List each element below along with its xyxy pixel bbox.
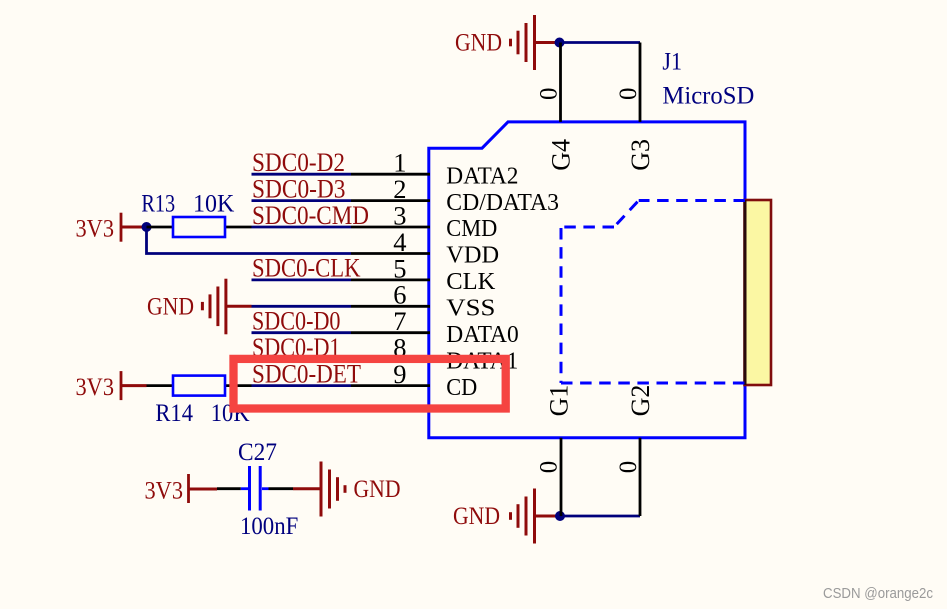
svg-text:GND: GND: [147, 293, 194, 320]
resistor R13: [141, 191, 251, 238]
svg-text:DATA0: DATA0: [446, 321, 518, 348]
ground symbol bottom: [511, 489, 561, 544]
svg-text:0: 0: [615, 88, 642, 101]
svg-text:CD: CD: [446, 374, 477, 401]
dark overlap of pad left edge on body edge: [744, 200, 747, 385]
pin 3: [351, 200, 497, 242]
wire net SDC0-CLK: [252, 253, 361, 283]
pin 1: [351, 148, 519, 190]
wire from GND to G3: [560, 41, 641, 44]
svg-text:3V3: 3V3: [145, 478, 184, 505]
wire from R13 node to pin 4: [147, 227, 352, 254]
pin 6: [351, 280, 495, 322]
svg-text:SDC0-CMD: SDC0-CMD: [252, 200, 369, 230]
microSD card dashed outline: [561, 201, 745, 384]
power port 3V3 (R14 row): [76, 371, 147, 401]
svg-text:C27: C27: [238, 439, 277, 466]
node: top junction dot: [555, 38, 565, 48]
wire net SDC0-D0: [252, 306, 352, 336]
pin G4: [535, 43, 575, 171]
svg-text:CSDN @orange2c: CSDN @orange2c: [823, 586, 933, 602]
node: junction dot at R13 input: [142, 222, 152, 232]
svg-text:SDC0-CLK: SDC0-CLK: [252, 253, 361, 283]
pin 2: [351, 174, 559, 216]
wire from GND to G2: [560, 515, 640, 518]
pin G3: [615, 43, 655, 171]
svg-text:VDD: VDD: [446, 242, 499, 269]
svg-text:VSS: VSS: [446, 295, 495, 322]
svg-text:0: 0: [535, 88, 562, 101]
svg-text:0: 0: [536, 461, 563, 474]
ground symbol top: [511, 15, 560, 70]
pin 5: [351, 253, 496, 295]
svg-text:MicroSD: MicroSD: [662, 83, 754, 110]
svg-text:CLK: CLK: [446, 268, 495, 295]
svg-text:GND: GND: [453, 503, 500, 530]
capacitor C27: [217, 439, 298, 540]
svg-text:3V3: 3V3: [76, 215, 115, 242]
svg-text:0: 0: [615, 461, 642, 474]
svg-text:3: 3: [393, 200, 406, 230]
svg-text:3V3: 3V3: [76, 374, 115, 401]
red annotation rectangle: [234, 359, 506, 409]
node: bottom junction dot: [555, 511, 565, 521]
svg-text:GND: GND: [455, 29, 502, 56]
ground symbol at pin 6: [202, 279, 251, 335]
svg-text:G1: G1: [545, 385, 574, 417]
svg-text:SDC0-D0: SDC0-D0: [252, 306, 341, 336]
ground symbol at C27 (mirrored): [293, 462, 345, 517]
pin G1: [536, 385, 574, 516]
power port 3V3 (C27 row): [145, 474, 218, 505]
resistor R14: [147, 376, 252, 427]
card contact pad (yellow): [745, 200, 772, 385]
wire net SDC0-CMD: [252, 200, 370, 230]
svg-text:R14: R14: [155, 400, 193, 427]
svg-text:GND: GND: [354, 476, 401, 503]
pin 7: [351, 306, 519, 348]
wire net SDC0-D3: [252, 173, 352, 203]
wire net SDC0-DET: [252, 358, 362, 388]
svg-text:10K: 10K: [193, 191, 234, 218]
svg-text:J1: J1: [662, 49, 682, 76]
connector J1 body outline: [429, 122, 745, 438]
svg-text:G3: G3: [626, 139, 655, 171]
wire GND to pin 6: [252, 305, 352, 308]
svg-text:R13: R13: [141, 191, 175, 218]
svg-text:9: 9: [393, 359, 406, 389]
svg-text:100nF: 100nF: [240, 513, 298, 540]
pin 4: [351, 227, 499, 269]
wire net SDC0-D2: [252, 147, 352, 177]
pin G2: [615, 385, 655, 516]
svg-text:CD/DATA3: CD/DATA3: [446, 189, 559, 216]
wire net SDC0-D1: [252, 332, 352, 362]
svg-text:7: 7: [393, 306, 406, 336]
power port 3V3 (R13 row): [76, 213, 147, 243]
svg-text:G4: G4: [546, 139, 575, 171]
pin 9: [351, 359, 477, 401]
pin 8: [351, 333, 518, 375]
svg-text:DATA2: DATA2: [446, 162, 518, 189]
svg-text:G2: G2: [626, 385, 655, 417]
svg-text:CMD: CMD: [446, 215, 497, 242]
